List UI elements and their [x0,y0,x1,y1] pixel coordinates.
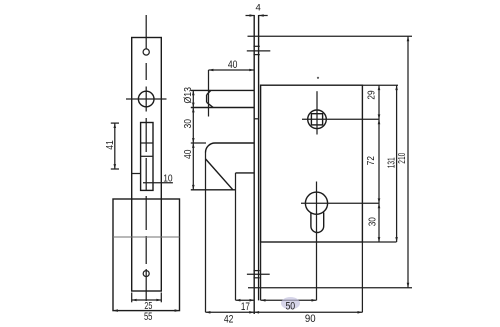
svg-text:90: 90 [305,313,316,325]
svg-text:55: 55 [144,311,153,323]
svg-text:42: 42 [224,313,234,325]
svg-text:4: 4 [256,3,261,14]
svg-text:41: 41 [104,140,116,150]
svg-text:30: 30 [367,217,379,226]
svg-text:17: 17 [241,301,250,313]
svg-text:72: 72 [365,156,377,165]
svg-text:50: 50 [285,300,295,312]
svg-text:30: 30 [182,119,194,129]
svg-text:Ø13: Ø13 [182,87,194,104]
svg-text:40: 40 [182,149,194,159]
svg-text:210: 210 [396,153,408,164]
svg-text:29: 29 [365,90,377,99]
svg-text:40: 40 [228,59,238,71]
